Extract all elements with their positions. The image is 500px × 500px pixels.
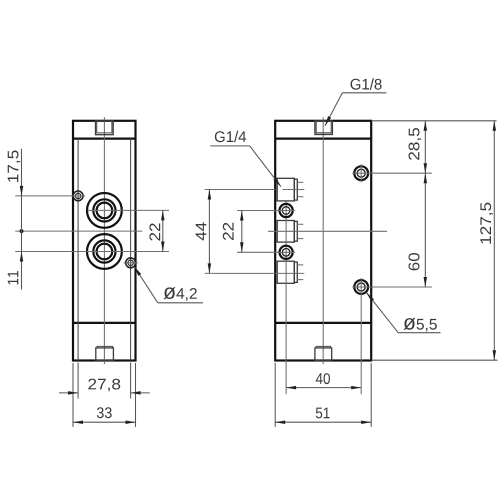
- stub3 center extension line: [205, 272, 304, 274]
- dimension 28,5: [424, 121, 426, 173]
- small hole top-left o4.2: [73, 191, 83, 201]
- bottom end-cap parting line: [73, 322, 136, 324]
- dimension 22 front view: [241, 211, 243, 253]
- right screw top: [354, 166, 368, 180]
- dim text 22 left view: [149, 223, 160, 240]
- left screw 1: [280, 204, 293, 217]
- G1/4 stub port 2: [277, 221, 294, 243]
- bottom end-cap parting line: [275, 322, 371, 324]
- top pilot tab: [96, 121, 114, 135]
- left screw 2 centerline: [237, 251, 295, 253]
- small hole bottom-right centerline tick: [124, 262, 138, 264]
- lower port circles: [87, 234, 122, 269]
- extension lines 51: [274, 363, 276, 427]
- upper port circles: [87, 193, 122, 228]
- bottom pilot tab: [96, 348, 114, 361]
- chain dimension node dot: [20, 229, 24, 233]
- top end-cap parting line: [275, 138, 371, 140]
- dimension 127,5: [493, 121, 495, 360]
- small hole bottom-right o4.2: [126, 258, 136, 268]
- label G1/8 with leader: [351, 78, 382, 89]
- body side edge right: [130, 139, 132, 361]
- dimension 40: [286, 387, 361, 389]
- dim text 17,5: [8, 150, 21, 182]
- upper port horizontal centerline: [88, 209, 170, 211]
- top edge extension line: [371, 120, 496, 122]
- G1/4 stub port 1: [277, 178, 294, 201]
- right screw bottom: [354, 280, 368, 294]
- lower port horizontal centerline: [15, 251, 169, 253]
- dimension 22 left view line: [162, 210, 164, 251]
- dimension chain vertical line 17.5/11: [21, 149, 23, 290]
- label G1/4 with leader: [215, 131, 246, 142]
- left screw 1 centerline: [237, 210, 295, 212]
- stub1 center extension line: [205, 189, 275, 191]
- top end-cap parting line: [73, 138, 136, 140]
- vertical centerline: [103, 117, 105, 364]
- small hole top-left centerline: [15, 195, 85, 197]
- label o5,5: [403, 318, 436, 332]
- left screw 2: [280, 246, 293, 259]
- dimension 44: [208, 190, 210, 274]
- left screws vertical centerline / 40 extension: [285, 202, 287, 395]
- dimension 51: [275, 421, 371, 423]
- vertical centerline: [322, 117, 324, 364]
- top pilot tab G1/8 port: [315, 121, 333, 135]
- arrow 22 down: [161, 242, 165, 252]
- bottom edge extension line: [371, 359, 497, 361]
- label o4,2: [164, 287, 197, 301]
- bottom pilot tab: [315, 348, 332, 361]
- leader o4,2: [134, 267, 158, 303]
- valve body outline (side view): [73, 121, 136, 361]
- arrow 17.5 down: [20, 186, 24, 196]
- arrow 22 up: [161, 210, 165, 220]
- dimension 60: [424, 173, 426, 287]
- dimension 33: [73, 421, 136, 423]
- horizontal mid axis front view: [268, 230, 387, 232]
- G1/4 stub port 3: [277, 261, 294, 283]
- body side edge left: [77, 139, 79, 361]
- dimension 27,8: [59, 392, 78, 394]
- horizontal mid axis: [15, 230, 142, 232]
- valve body outline (front view): [275, 121, 371, 361]
- extension lines below left view: [72, 363, 74, 427]
- dim text 11: [8, 271, 19, 284]
- arrow 11 up: [20, 252, 24, 262]
- leader o5,5: [366, 293, 398, 333]
